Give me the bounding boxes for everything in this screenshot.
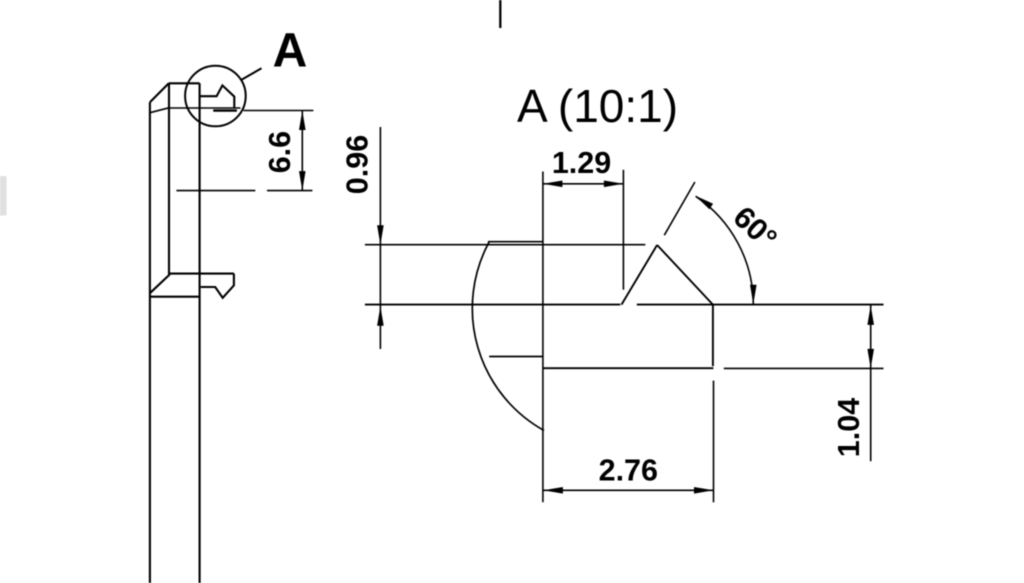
detail view: lip top double line: [488, 241, 543, 243]
detail view: block bottom edge: [543, 367, 714, 369]
left view: top edge: [169, 82, 200, 84]
dimension 1.04: arrowhead up: [867, 305, 874, 325]
leader line to label A: [240, 68, 261, 80]
scrollbar fragment left edge: [0, 176, 7, 216]
detail view: block right edge: [712, 305, 714, 367]
dimension 1.04: dimension line: [870, 305, 872, 461]
dimension 60: arc: [696, 196, 754, 304]
left view: upper barb lip bottom: [213, 109, 237, 111]
detail circle A: [185, 66, 246, 127]
left view: top-left chamfer: [150, 83, 169, 102]
dimension 60: arrowhead upper: [695, 196, 713, 210]
left view: lower chamfer diagonal: [150, 274, 170, 293]
detail view: triangle right slope: [657, 245, 713, 305]
dimension 0.96: arrowhead up: [377, 306, 384, 326]
detail view: block right edge extension: [713, 381, 715, 503]
detail view: inner short line: [489, 356, 543, 358]
left view: inner wall: [168, 83, 170, 274]
dimension 1.29: arrowhead left: [543, 181, 563, 188]
dimension 2.76: arrowhead left: [543, 487, 563, 494]
dimension 1.29: dimension line: [543, 183, 624, 185]
left view: lower bottom edge: [150, 296, 200, 298]
detail view: lip top edge: [365, 244, 645, 246]
svg-text:60°: 60°: [727, 200, 784, 256]
dimension 0.96: arrowhead down: [377, 225, 384, 245]
detail view: bend arc: [472, 242, 544, 430]
left view: right wall: [199, 83, 201, 583]
dimension 6.6: arrowhead down: [299, 171, 306, 191]
dimension 2.76: arrowhead right: [694, 487, 714, 494]
dimension 1.29: right extension line: [622, 170, 624, 290]
dimension 6.6: dimension line: [301, 111, 303, 191]
left view: outer left wall: [149, 102, 151, 583]
svg-text:2.76: 2.76: [599, 454, 658, 488]
break tick top center: [499, 0, 501, 28]
svg-text:1.04: 1.04: [832, 398, 866, 457]
left view: inner surface line: [169, 107, 241, 109]
detail view: triangle left slope: [622, 245, 658, 305]
dimension 1.29: arrowhead right: [604, 181, 624, 188]
dimension 6.6: extension line bottom: [176, 190, 312, 192]
svg-text:1.29: 1.29: [552, 146, 611, 180]
dimension 60: slope extension line: [664, 182, 695, 235]
detail view: block left edge and extensions: [542, 172, 544, 503]
dimension 6.6: extension line top: [244, 110, 314, 112]
dimension 6.6: arrowhead up: [299, 111, 306, 131]
left view: lower barb outline: [201, 274, 234, 298]
svg-text:A (10:1): A (10:1): [517, 80, 678, 132]
svg-text:A: A: [273, 24, 308, 77]
dimension 60: arrowhead lower: [750, 285, 757, 305]
dimension 2.76: dimension line: [543, 489, 713, 491]
svg-text:6.6: 6.6: [263, 131, 297, 173]
detail view: bottom extension line right: [724, 367, 884, 369]
left view: lower shelf line: [170, 273, 234, 275]
dimension 0.96: dimension line: [379, 127, 381, 349]
svg-text:0.96: 0.96: [340, 135, 374, 194]
left view: inner chamfer line: [150, 108, 169, 113]
detail view: surface line: [365, 304, 884, 306]
left view: upper barb outline: [200, 85, 234, 108]
dimension 1.04: arrowhead down: [867, 349, 874, 369]
